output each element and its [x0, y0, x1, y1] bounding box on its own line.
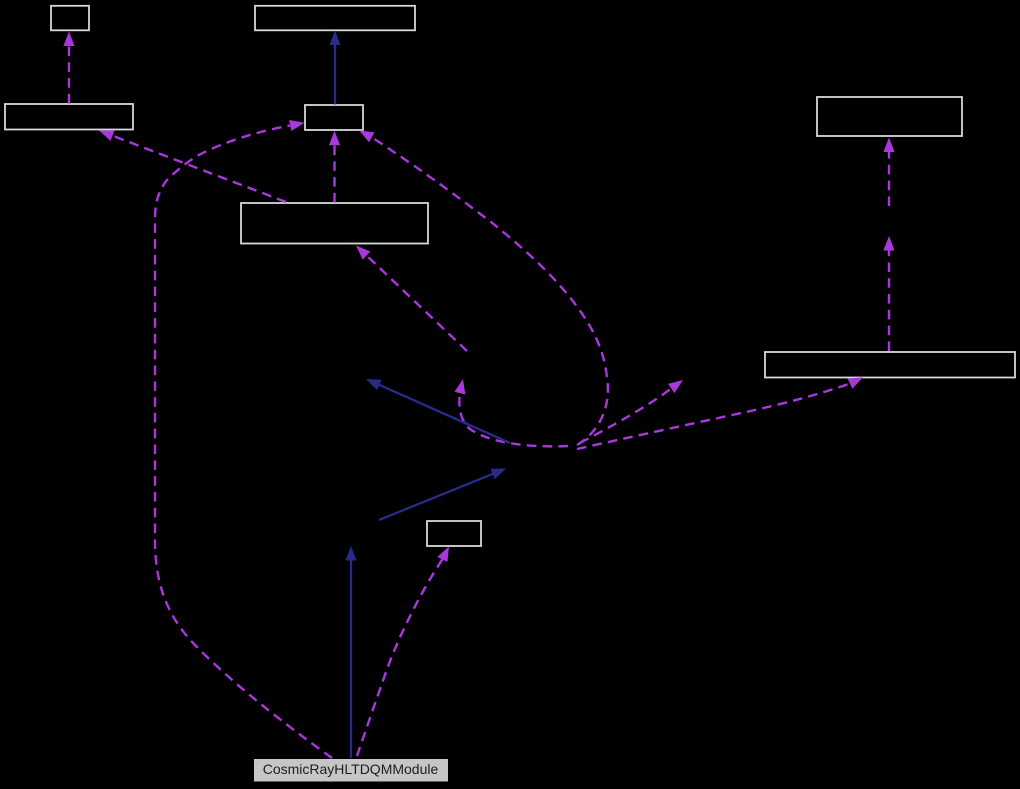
main node CosmicRayHLTDQMModule: [254, 759, 448, 782]
edge hub to D long dashed curve: [372, 137, 608, 445]
edge G to hidden-label dashed line: [888, 250, 890, 351]
edge hub to hidden node up-right dashed: [580, 389, 671, 444]
arrowhead short curve: [454, 379, 465, 394]
node box F (mid-left wide): [241, 203, 428, 244]
edge hub to upper-left hidden node solid blue: [379, 385, 510, 443]
node box C (left): [5, 104, 133, 130]
arrowhead to E: [883, 138, 894, 153]
node box E (top-right): [817, 97, 962, 136]
svg-text:CosmicRayHLTDQMModule: CosmicRayHLTDQMModule: [263, 761, 439, 777]
arrowhead loop to D left edge: [289, 120, 304, 131]
arrowhead F to C: [99, 130, 115, 141]
arrowhead to F bottom: [356, 246, 370, 260]
arrowhead hub-curve to D bottom-right: [359, 130, 374, 142]
edge main module to H dashed curve: [357, 559, 442, 756]
edge hidden-label to E dashed line: [888, 151, 890, 206]
arrowhead up-right: [668, 380, 683, 393]
arrowhead to G bottom: [848, 377, 864, 388]
edge big left loop from main module to D dashed curve: [155, 126, 332, 759]
edge hub to G dashed: [577, 384, 850, 449]
arrowhead F to D: [329, 131, 340, 146]
edge hub to hidden node short dashed curve: [459, 393, 568, 446]
arrowhead main module up: [345, 546, 356, 561]
node box B (top-center wide): [255, 6, 415, 31]
node box G (right wide): [765, 352, 1015, 378]
arrowhead G to hidden-label: [883, 236, 894, 251]
node box H (small center-bottom): [427, 521, 481, 546]
arrowhead to hub: [491, 469, 507, 480]
edge C to A dashed line: [68, 45, 70, 104]
edge hidden node to F dashed line: [367, 256, 468, 352]
node box A (top-left small): [51, 6, 89, 31]
node box D (center small): [305, 105, 363, 130]
arrowhead C to A: [63, 32, 74, 47]
arrowhead D to B: [329, 31, 340, 46]
edge main module up solid blue: [350, 560, 352, 758]
edge F to D dashed line: [333, 145, 335, 203]
edge D to B solid inheritance line: [334, 44, 336, 105]
arrowhead up-left: [366, 379, 382, 390]
edge hidden row to hub solid blue diagonal: [379, 474, 493, 520]
edge F to C dashed line: [113, 136, 287, 202]
arrowhead to H bottom: [437, 547, 449, 563]
